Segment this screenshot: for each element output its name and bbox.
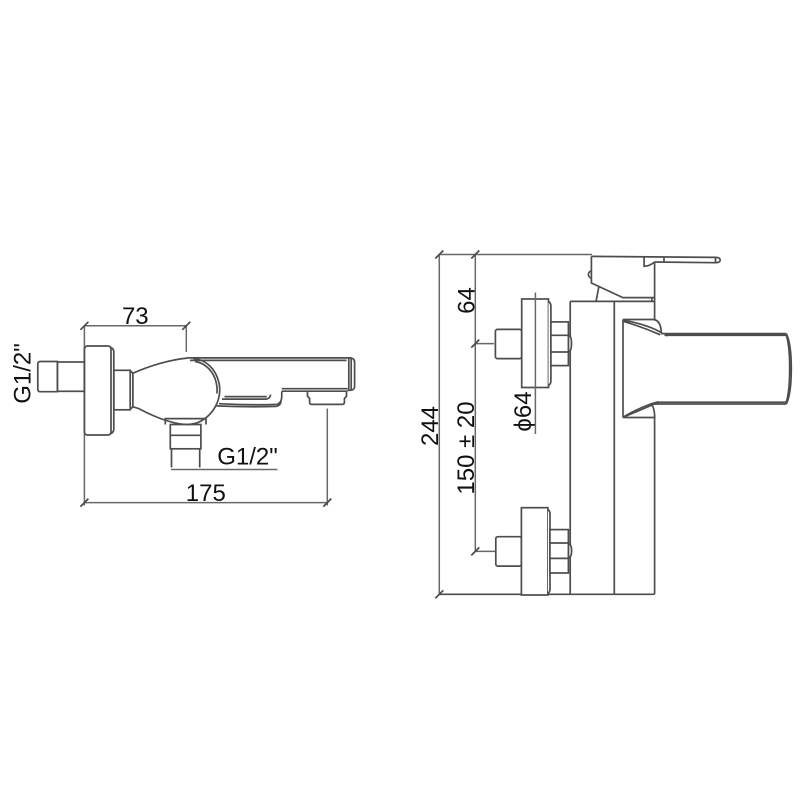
svg-text:G1/2": G1/2" <box>10 343 37 404</box>
svg-text:G1/2": G1/2" <box>217 443 278 470</box>
svg-text:73: 73 <box>122 303 149 330</box>
svg-text:ϕ64: ϕ64 <box>510 391 537 431</box>
svg-text:150 ± 20: 150 ± 20 <box>453 401 480 494</box>
svg-text:175: 175 <box>186 480 226 507</box>
svg-text:64: 64 <box>453 287 480 314</box>
svg-text:244: 244 <box>417 406 444 446</box>
